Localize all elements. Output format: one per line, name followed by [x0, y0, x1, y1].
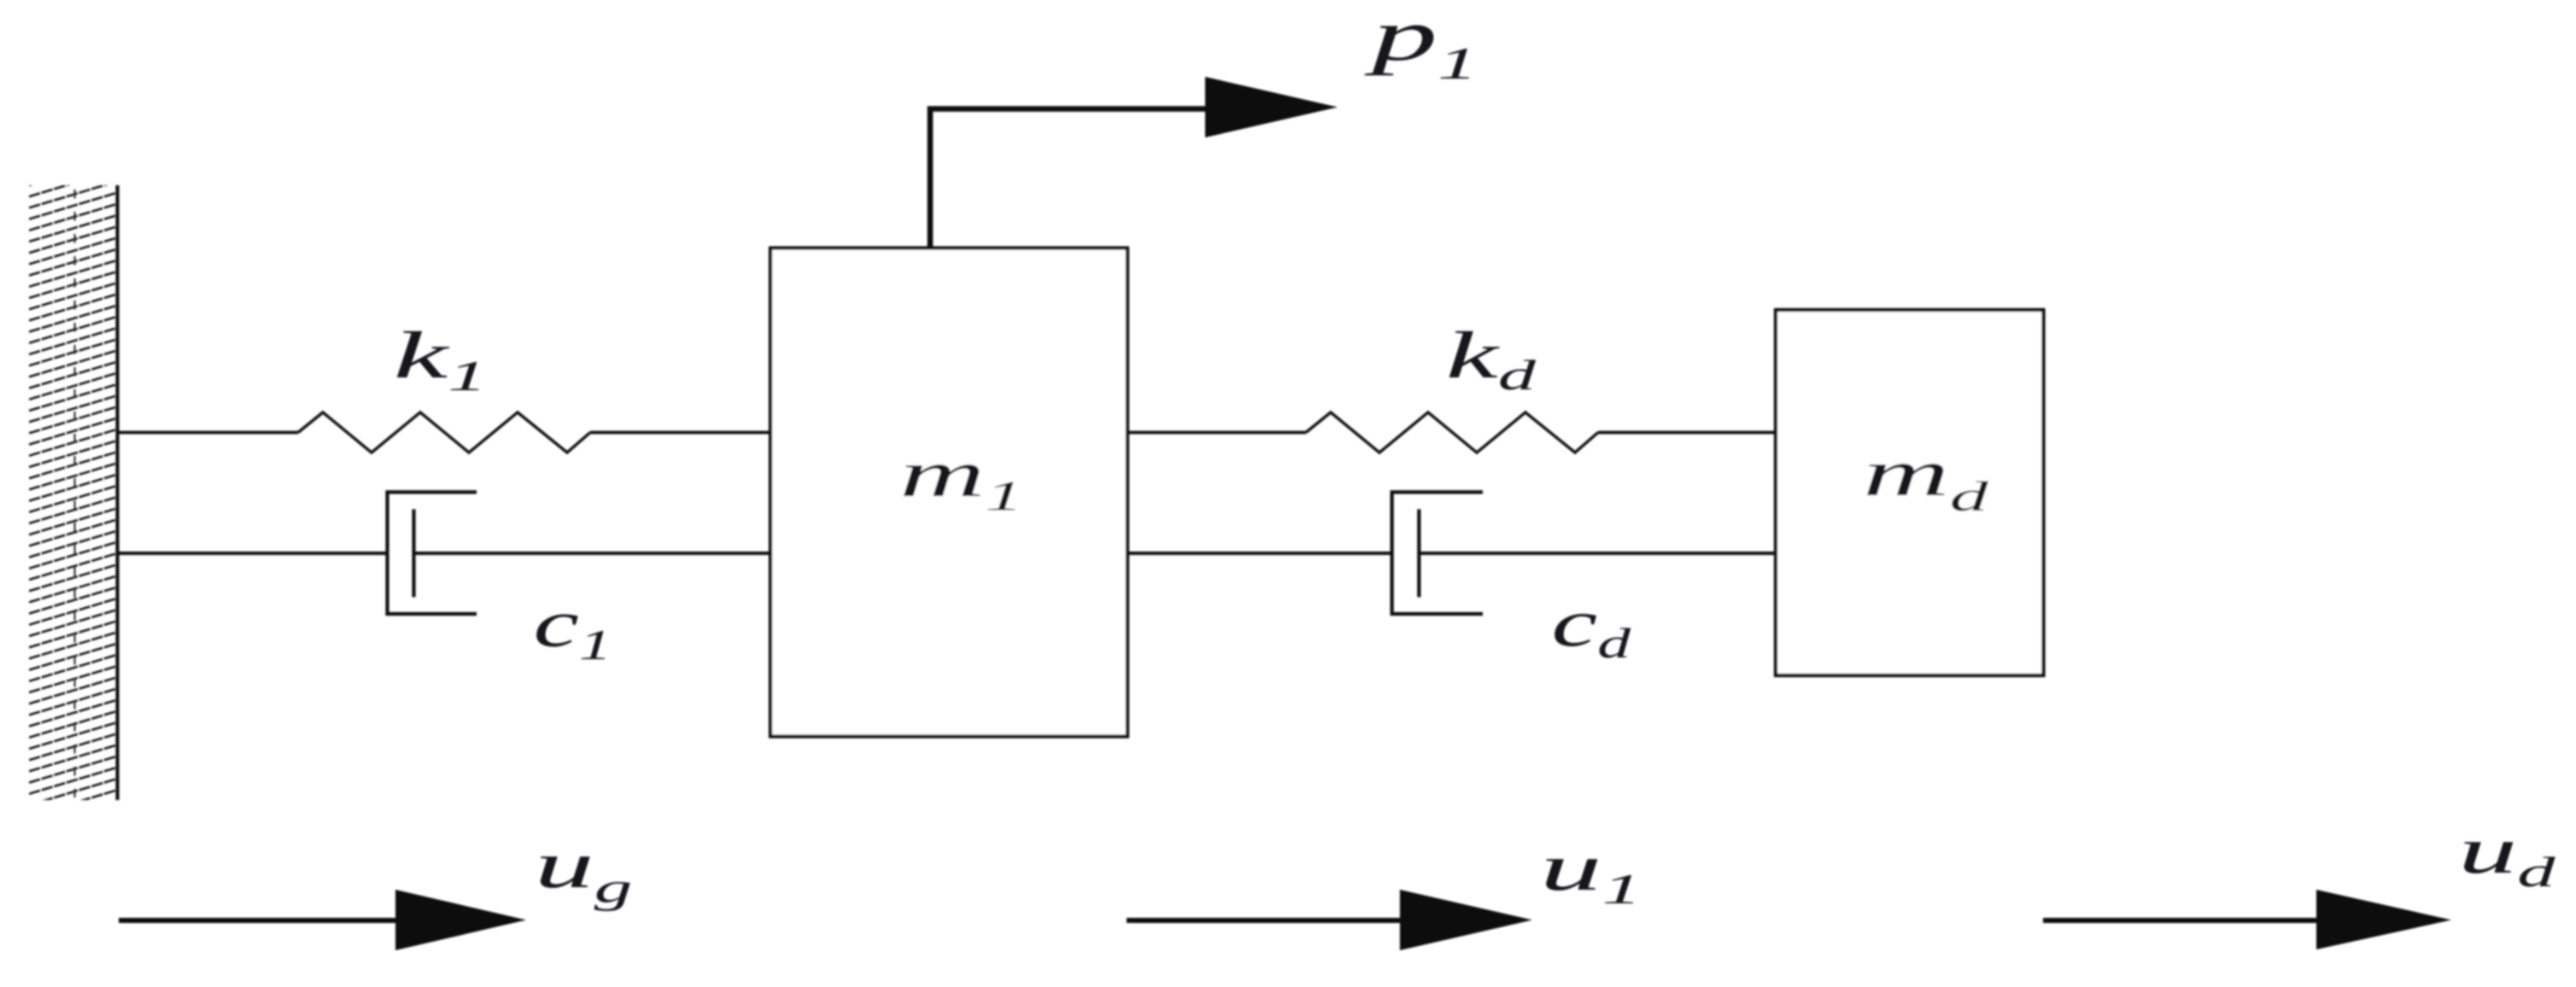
spring k1 zigzag [298, 412, 590, 453]
wire: damper cd to mass md [1420, 552, 1776, 555]
wire: spring kd to mass md [1598, 431, 1776, 435]
wall centre dashed line [73, 190, 75, 797]
displacement u1 arrow line [1127, 918, 1401, 923]
ground wall hatching [29, 159, 118, 816]
displacement ug arrowhead [395, 890, 526, 950]
wire: wall to spring k1 [118, 431, 299, 435]
wire: mass m1 to spring kd [1127, 431, 1306, 435]
wall face line [115, 185, 119, 800]
displacement ud arrow line [2043, 918, 2317, 923]
force p1 wire from mass m1 top [930, 109, 1206, 249]
wire: mass m1 to damper cd [1127, 552, 1394, 555]
wire: spring k1 to mass m1 [590, 431, 770, 435]
damper c1 piston [412, 509, 415, 597]
damper cd piston [1417, 509, 1420, 597]
wire: damper c1 to mass m1 [415, 552, 770, 555]
wire: wall to damper c1 [118, 552, 389, 555]
mass m1 box [770, 248, 1127, 737]
spring kd zigzag [1306, 412, 1598, 453]
damper cd cylinder [1392, 492, 1483, 614]
force p1 arrowhead [1205, 77, 1338, 137]
displacement u1 arrowhead [1400, 890, 1532, 950]
damper c1 cylinder [388, 492, 477, 614]
displacement ug arrow line [119, 918, 396, 923]
displacement ud arrowhead [2316, 890, 2451, 949]
mass md box [1776, 310, 2044, 675]
